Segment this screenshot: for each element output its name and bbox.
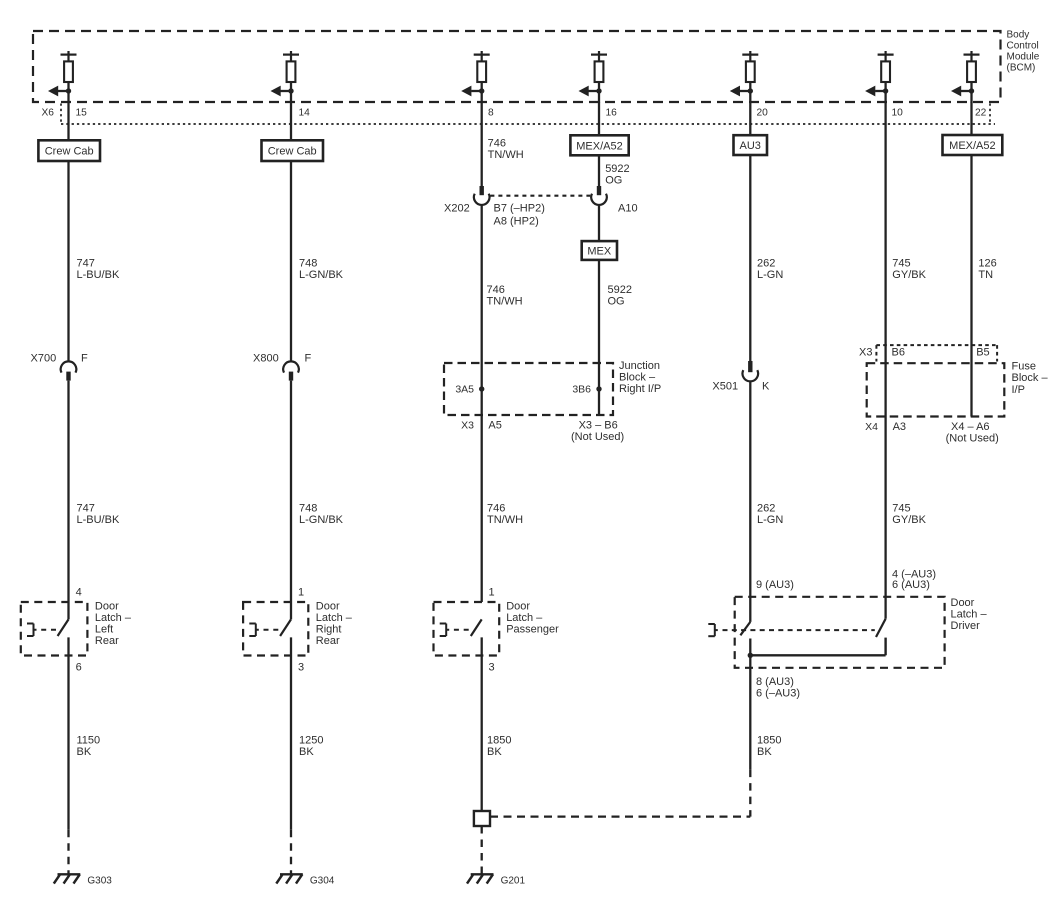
Fuse Block I/P dashed box	[867, 363, 1005, 416]
wire col5 pin20 to AU3 box	[749, 102, 751, 135]
svg-text:5922: 5922	[605, 163, 629, 175]
svg-text:Block –: Block –	[1012, 372, 1049, 384]
wire label 5922 OG (upper)	[605, 163, 629, 186]
svg-text:B5: B5	[976, 347, 989, 359]
svg-text:TN/WH: TN/WH	[487, 296, 523, 308]
svg-text:16: 16	[606, 108, 618, 119]
wire col3 746 TN/WH mid	[481, 204, 483, 602]
svg-text:Fuse: Fuse	[1012, 361, 1036, 373]
wire col4 5922 OG upper	[598, 155, 600, 186]
X700 label	[31, 353, 57, 365]
Door Latch Left Rear label	[95, 601, 132, 648]
wire col5 262 L-GN upper	[749, 155, 751, 361]
svg-text:F: F	[81, 353, 88, 365]
svg-text:X4 – A6: X4 – A6	[951, 421, 990, 433]
svg-text:746: 746	[487, 284, 505, 296]
pin 22	[975, 108, 987, 119]
svg-text:10: 10	[892, 108, 904, 119]
svg-text:746: 746	[487, 503, 505, 515]
pin 8 (AU3) / 6 (-AU3) label	[756, 676, 800, 700]
ground label G304	[310, 875, 335, 886]
pin 3 label col2	[298, 661, 304, 673]
wire col2 748 L-GN/BK upper	[290, 161, 292, 362]
svg-text:Rear: Rear	[95, 635, 119, 647]
svg-text:1150: 1150	[77, 734, 101, 746]
dashed wire col1 to ground	[67, 830, 69, 875]
wire col2 pin14 to Crew Cab box	[290, 102, 292, 140]
svg-text:(Not Used): (Not Used)	[946, 433, 999, 445]
Door Latch Passenger linkage dashes	[454, 629, 470, 631]
pin 10	[892, 108, 904, 119]
svg-text:X202: X202	[444, 203, 470, 215]
svg-text:BK: BK	[487, 746, 502, 758]
svg-text:747: 747	[77, 258, 95, 270]
svg-text:Junction: Junction	[619, 360, 660, 372]
svg-text:3B6: 3B6	[572, 384, 591, 396]
dashed wire col2 to ground	[290, 830, 292, 875]
BCM driver col5: supply bar, resistor, output arrow	[730, 51, 759, 103]
wire label 746 TN/WH (top)	[488, 137, 524, 161]
svg-text:Passenger: Passenger	[506, 624, 559, 636]
wire label 746 TN/WH (lower)	[487, 503, 523, 527]
wire label 1850 BK col3	[487, 734, 511, 758]
inline connector X800 pin F	[283, 361, 299, 380]
svg-text:X3: X3	[461, 420, 474, 432]
BCM name label	[1007, 30, 1040, 74]
svg-text:A8 (HP2): A8 (HP2)	[494, 216, 539, 228]
svg-text:Driver: Driver	[951, 620, 981, 632]
svg-text:L-GN: L-GN	[757, 514, 783, 526]
wire col2 1250 BK	[290, 637, 292, 829]
Door Latch Right Rear actuator bracket	[249, 624, 258, 637]
wire label 1250 BK	[299, 734, 323, 758]
pin 14	[299, 108, 311, 119]
svg-text:Latch –: Latch –	[316, 612, 353, 624]
wire label 262 L-GN (lower)	[757, 503, 783, 527]
wire label 745 GY/BK (lower)	[892, 503, 926, 527]
svg-text:(Not Used): (Not Used)	[571, 431, 624, 443]
Junction Block Right I/P dashed box	[444, 363, 613, 415]
Door Latch Left Rear linkage dashes	[41, 629, 57, 631]
AU3 box	[734, 135, 768, 155]
svg-text:5922: 5922	[608, 284, 632, 296]
wire label 262 L-GN (upper)	[757, 258, 783, 282]
pin 9 (AU3) label	[756, 579, 794, 591]
wire label 745 GY/BK (upper)	[892, 258, 926, 282]
svg-text:4: 4	[76, 586, 82, 598]
BCM driver col7: supply bar, resistor, output arrow	[951, 51, 980, 103]
svg-text:Latch –: Latch –	[95, 612, 132, 624]
svg-text:G303: G303	[87, 875, 112, 886]
pin 8	[488, 108, 494, 119]
X4 A3 labels below fuse block	[865, 421, 906, 433]
svg-text:262: 262	[757, 503, 775, 515]
Door Latch Driver bridge wire	[750, 654, 885, 656]
svg-text:AU3: AU3	[739, 140, 760, 152]
fuse block dotted sub-box	[876, 345, 997, 361]
bridge junction dot col5	[748, 653, 753, 658]
terminal F label col2	[305, 353, 312, 365]
connector designator X6	[42, 108, 55, 119]
3B6 label	[572, 384, 591, 396]
wire label 1150 BK	[77, 734, 101, 758]
B5 label	[976, 347, 989, 359]
dashed wire to splice	[490, 815, 750, 817]
wire label 748 L-GN/BK (upper)	[299, 258, 344, 282]
MEX/A52 box col7	[943, 135, 1003, 155]
svg-text:G201: G201	[501, 875, 526, 886]
X501 label	[712, 381, 738, 393]
svg-text:Body: Body	[1007, 30, 1030, 41]
Body Control Module (BCM) dashed outline	[33, 31, 1001, 102]
svg-text:Crew Cab: Crew Cab	[45, 146, 94, 158]
X3 label fuse block	[859, 347, 872, 359]
svg-text:1850: 1850	[487, 734, 511, 746]
wire col1 1150 BK	[67, 637, 69, 829]
svg-text:BK: BK	[757, 746, 772, 758]
svg-text:126: 126	[978, 258, 996, 270]
svg-text:Right: Right	[316, 624, 342, 636]
X4 - A6 (Not Used) label	[946, 421, 999, 445]
pin 6 label	[76, 661, 82, 673]
pin 20	[757, 108, 769, 119]
svg-text:6 (AU3): 6 (AU3)	[892, 579, 930, 591]
Door Latch Passenger label	[506, 601, 559, 636]
svg-text:Crew Cab: Crew Cab	[268, 146, 317, 158]
svg-text:L-GN/BK: L-GN/BK	[299, 269, 344, 281]
svg-text:B6: B6	[892, 347, 905, 359]
Crew Cab box col2	[262, 140, 324, 161]
svg-text:GY/BK: GY/BK	[892, 269, 926, 281]
MEX box	[582, 241, 617, 260]
wire col7 126 TN	[970, 155, 972, 417]
X202 harness dotted line	[490, 195, 590, 197]
svg-text:8: 8	[488, 108, 494, 119]
connector row X6 dotted line	[61, 104, 995, 125]
svg-text:20: 20	[757, 108, 769, 119]
svg-text:MEX: MEX	[587, 246, 612, 258]
pin 15	[76, 108, 88, 119]
pin 4 label	[76, 586, 82, 598]
svg-text:Control: Control	[1007, 41, 1039, 52]
Door Latch Passenger switch blade	[471, 619, 482, 636]
svg-text:OG: OG	[608, 296, 625, 308]
svg-text:MEX/A52: MEX/A52	[949, 140, 995, 152]
BCM driver col4: supply bar, resistor, output arrow	[579, 51, 608, 103]
wire label 747 L-BU/BK (lower)	[77, 503, 120, 527]
wire label 5922 OG (lower)	[608, 284, 632, 308]
svg-text:BK: BK	[77, 746, 92, 758]
svg-text:Door: Door	[95, 601, 119, 613]
wire label 746 TN/WH (mid)	[487, 284, 523, 308]
Door Latch Left Rear switch blade	[58, 619, 69, 636]
svg-text:GY/BK: GY/BK	[892, 514, 926, 526]
inline connector X202 pin A10 (col4 side)	[591, 186, 607, 205]
Door Latch Right Rear dashed box	[243, 602, 308, 656]
svg-text:Right I/P: Right I/P	[619, 383, 661, 395]
Door Latch Driver linkage dashes	[723, 629, 875, 631]
Door Latch Driver switch blade col6	[876, 619, 886, 637]
svg-text:745: 745	[892, 503, 910, 515]
svg-text:14: 14	[299, 108, 311, 119]
X3 A5 connector labels below junction block	[461, 420, 502, 432]
svg-text:G304: G304	[310, 875, 335, 886]
svg-text:TN: TN	[978, 269, 993, 281]
B6 label	[892, 347, 905, 359]
svg-text:747: 747	[77, 503, 95, 515]
svg-text:X700: X700	[31, 353, 57, 365]
BCM driver col3: supply bar, resistor, output arrow	[461, 51, 490, 103]
X202 label	[444, 203, 470, 215]
Door Latch Right Rear linkage dashes	[264, 629, 280, 631]
svg-text:X4: X4	[865, 421, 878, 433]
svg-text:X800: X800	[253, 353, 279, 365]
Door Latch Right Rear switch blade	[280, 619, 291, 636]
Door Latch Left Rear actuator bracket	[27, 624, 37, 637]
svg-text:3: 3	[298, 661, 304, 673]
pin 16	[606, 108, 618, 119]
svg-text:X6: X6	[42, 108, 55, 119]
svg-text:748: 748	[299, 503, 317, 515]
svg-text:Latch –: Latch –	[951, 609, 988, 621]
wire col3 pin8 746 TN/WH	[481, 102, 483, 186]
wire col4 pin16 to MEX/A52 box	[598, 102, 600, 135]
svg-text:F: F	[305, 353, 312, 365]
wire label 748 L-GN/BK (lower)	[299, 503, 344, 527]
svg-text:1: 1	[489, 586, 495, 598]
svg-text:Door: Door	[951, 597, 975, 609]
svg-text:K: K	[762, 381, 770, 393]
wire col5 262 L-GN lower	[749, 381, 751, 622]
Door Latch Passenger dashed box	[434, 602, 500, 656]
wire col7 pin22 to MEX/A52 box	[970, 102, 972, 135]
pin 3 label col3	[489, 661, 495, 673]
pin 1 label col2	[298, 586, 304, 598]
svg-text:L-GN/BK: L-GN/BK	[299, 514, 344, 526]
wire col4 5922 OG lower	[598, 260, 600, 415]
Door Latch Driver dashed box	[735, 597, 945, 668]
svg-text:1: 1	[298, 586, 304, 598]
pin 4 (-AU3) / 6 (AU3) label	[892, 569, 936, 592]
svg-text:L-GN: L-GN	[757, 269, 783, 281]
svg-text:22: 22	[975, 108, 987, 119]
svg-text:Module: Module	[1007, 52, 1040, 63]
BCM driver col6: supply bar, resistor, output arrow	[865, 51, 894, 103]
wire col1 pin15 to Crew Cab box	[67, 102, 69, 140]
svg-text:X501: X501	[712, 381, 738, 393]
3A5 label	[455, 384, 474, 396]
svg-text:TN/WH: TN/WH	[487, 514, 523, 526]
Door Latch Passenger actuator bracket	[440, 624, 450, 637]
svg-text:BK: BK	[299, 746, 314, 758]
junction block terminal 3A5 dot	[479, 386, 484, 391]
wire label 747 L-BU/BK (upper)	[77, 258, 120, 282]
BCM driver col2: supply bar, resistor, output arrow	[271, 51, 300, 103]
svg-text:3: 3	[489, 661, 495, 673]
Fuse Block I/P label	[1012, 361, 1049, 397]
Crew Cab box col1	[38, 140, 100, 161]
dashed wire col5 down	[749, 770, 751, 817]
svg-text:X3 – B6: X3 – B6	[579, 420, 618, 432]
svg-text:6 (–AU3): 6 (–AU3)	[756, 688, 800, 700]
svg-text:745: 745	[892, 258, 910, 270]
BCM driver col1: supply bar, resistor, output arrow	[48, 51, 77, 103]
svg-text:(BCM): (BCM)	[1007, 63, 1036, 74]
wire col3 1850 BK	[481, 637, 483, 811]
svg-text:X3: X3	[859, 347, 872, 359]
svg-text:Door: Door	[506, 601, 530, 613]
wire col6 pin10 745 GY/BK	[884, 102, 886, 619]
Door Latch Driver switch blade col5	[740, 622, 750, 635]
X3 - B6 (Not Used) label	[571, 420, 624, 444]
ground G201 symbol	[467, 874, 494, 883]
X800 label	[253, 353, 279, 365]
svg-text:L-BU/BK: L-BU/BK	[77, 269, 120, 281]
ground G304 symbol	[276, 874, 303, 883]
inline connector X202 pin B7/A8 (col3 side)	[474, 186, 490, 205]
svg-text:9 (AU3): 9 (AU3)	[756, 579, 794, 591]
svg-text:6: 6	[76, 661, 82, 673]
ground label G201	[501, 875, 526, 886]
svg-text:A3: A3	[893, 421, 906, 433]
svg-text:748: 748	[299, 258, 317, 270]
svg-text:OG: OG	[605, 175, 622, 187]
splice box S-connection	[474, 811, 490, 826]
svg-text:746: 746	[488, 137, 506, 149]
svg-text:I/P: I/P	[1012, 384, 1025, 396]
wire label 126 TN	[978, 258, 996, 282]
wire col4 to MEX box	[598, 204, 600, 241]
Door Latch Driver label	[951, 597, 988, 632]
svg-text:TN/WH: TN/WH	[488, 149, 524, 161]
pin 1 label col3	[489, 586, 495, 598]
svg-text:262: 262	[757, 258, 775, 270]
junction block terminal 3B6 dot	[596, 386, 601, 391]
svg-text:B7 (–HP2): B7 (–HP2)	[494, 203, 545, 215]
svg-text:MEX/A52: MEX/A52	[576, 140, 622, 152]
svg-text:A5: A5	[488, 420, 501, 432]
terminal F label col1	[81, 353, 88, 365]
Door Latch Left Rear dashed box	[21, 602, 88, 656]
wire col1 747 L-BU/BK upper	[67, 161, 69, 362]
svg-text:1250: 1250	[299, 734, 323, 746]
MEX/A52 box col4	[570, 135, 628, 155]
Door Latch Driver actuator bracket	[708, 624, 718, 636]
terminal B7 (-HP2) / A8 (HP2) label	[494, 203, 545, 228]
Junction Block Right I/P label	[619, 360, 661, 395]
dashed wire col3 below splice	[481, 826, 483, 875]
terminal A10 label	[618, 203, 638, 215]
inline connector X700 pin F	[61, 361, 77, 380]
svg-text:Rear: Rear	[316, 635, 340, 647]
svg-text:A10: A10	[618, 203, 638, 215]
svg-text:15: 15	[76, 108, 88, 119]
svg-text:Left: Left	[95, 624, 113, 636]
svg-text:1850: 1850	[757, 734, 781, 746]
inline connector X501 pin K	[743, 361, 759, 381]
svg-text:8 (AU3): 8 (AU3)	[756, 676, 794, 688]
terminal K label	[762, 381, 770, 393]
wire col2 748 L-GN/BK lower	[290, 381, 292, 620]
Door Latch Right Rear label	[316, 601, 353, 648]
svg-text:Block –: Block –	[619, 372, 656, 384]
svg-text:Door: Door	[316, 601, 340, 613]
ground G303 symbol	[54, 874, 81, 883]
svg-text:Latch –: Latch –	[506, 612, 543, 624]
svg-text:3A5: 3A5	[455, 384, 474, 396]
Door Latch Driver col6 lower contact stub	[884, 638, 886, 656]
wire label 1850 BK col5	[757, 734, 781, 758]
wire col5 through latch lower contact	[749, 639, 751, 770]
ground label G303	[87, 875, 112, 886]
wire col1 747 L-BU/BK lower	[67, 381, 69, 620]
svg-text:L-BU/BK: L-BU/BK	[77, 514, 120, 526]
